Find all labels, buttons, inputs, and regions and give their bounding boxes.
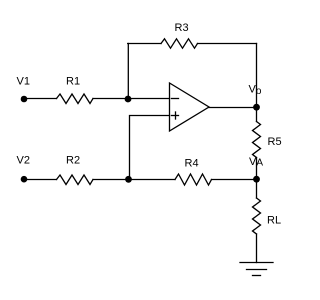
svg-text:R5: R5 — [268, 136, 282, 148]
svg-text:V2: V2 — [17, 155, 30, 167]
node V1 terminal — [21, 96, 28, 103]
wire V1 to R1 — [24, 98, 57, 100]
resistor R2 — [57, 175, 94, 185]
wire top-right corner down to node Vo — [256, 44, 258, 108]
resistor R5 — [253, 122, 261, 158]
svg-text:R4: R4 — [185, 158, 199, 170]
wire node A to op-amp inverting input — [128, 98, 170, 100]
resistor R1 — [57, 94, 94, 104]
svg-text:RL: RL — [267, 215, 281, 227]
wire node A up to top rail — [127, 44, 129, 99]
resistor R4 — [175, 174, 212, 185]
node A junction — [125, 96, 132, 103]
svg-text:VA: VA — [249, 156, 263, 169]
svg-text:R1: R1 — [66, 76, 80, 88]
node B junction — [125, 176, 132, 183]
svg-text:R2: R2 — [66, 155, 80, 167]
wire V2 to R2 — [24, 179, 57, 181]
svg-text:Vo: Vo — [249, 84, 262, 98]
wire top-left corner to R3 — [128, 43, 161, 45]
wire op-amp output to node Vo — [209, 107, 257, 109]
svg-text:V1: V1 — [17, 76, 30, 88]
wire R3 to top-right corner — [198, 43, 257, 45]
wire RL to ground — [256, 234, 258, 263]
wire R1 to node A — [93, 98, 128, 100]
wire R4 to node VA — [212, 179, 257, 181]
wire op-amp noninverting input from corner — [130, 116, 170, 180]
node Vo — [253, 104, 260, 111]
resistor RL — [253, 198, 261, 234]
ground — [240, 262, 273, 264]
wire Vo to R5 — [256, 107, 258, 121]
wire R5 to node VA — [256, 158, 258, 180]
op-amp U1 — [170, 83, 210, 131]
wire VA to RL — [256, 179, 258, 198]
node VA — [253, 176, 260, 183]
wire R2 to node B — [93, 179, 129, 181]
resistor R3 — [161, 39, 198, 48]
svg-text:R3: R3 — [175, 22, 189, 34]
wire node B to R4 — [129, 179, 176, 181]
node V2 terminal — [21, 176, 28, 183]
